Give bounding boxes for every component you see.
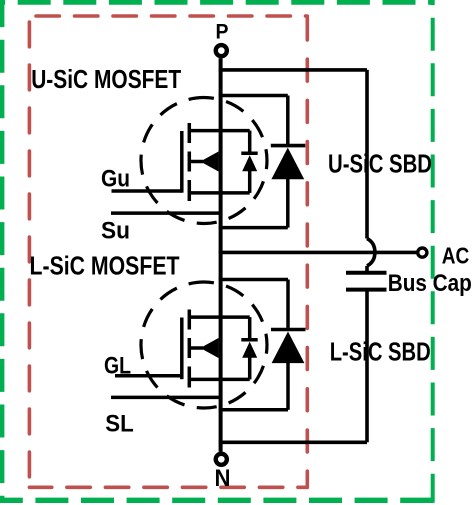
svg-text:U-SiC SBD: U-SiC SBD xyxy=(328,149,432,179)
diode L-SiC SBD anode lead xyxy=(286,362,290,410)
die boundary (red dashed box) xyxy=(29,16,307,487)
wire: gate lead GL xyxy=(115,374,182,378)
diode lower body diode triangle xyxy=(242,342,257,358)
svg-text:Gu: Gu xyxy=(101,166,130,193)
svg-text:U-SiC MOSFET: U-SiC MOSFET xyxy=(31,64,181,94)
wire: top rail P to bus branch xyxy=(219,68,367,72)
diode lower body diode cathode lead xyxy=(248,317,252,338)
transistor L-SiC MOSFET channel segment body xyxy=(188,338,192,358)
svg-text:GL: GL xyxy=(104,352,131,379)
wire: upper SBD branch bottom bar xyxy=(219,226,288,230)
wire: lower SBD branch bottom bar xyxy=(219,408,288,412)
wire: lower source bar to body-diode branch xyxy=(188,378,250,382)
wire: main phase-leg vertical P to N xyxy=(219,58,223,452)
diode L-SiC SBD cathode lead xyxy=(286,280,290,328)
diode U-SiC SBD anode lead xyxy=(286,178,290,228)
transistor U-SiC MOSFET channel segment body xyxy=(188,152,192,172)
diode upper body diode anode lead xyxy=(248,170,252,193)
transistor L-SiC MOSFET channel segment source xyxy=(188,367,192,388)
wire: AC output line xyxy=(219,251,417,255)
wire: upper source bar to body-diode branch xyxy=(188,191,250,195)
svg-text:Su: Su xyxy=(101,217,130,244)
diode lower body diode cathode bar xyxy=(241,338,257,342)
node N terminal circle xyxy=(216,454,227,465)
wire: gate lead Gu xyxy=(112,189,182,193)
diode U-SiC SBD cathode lead xyxy=(286,96,290,145)
diode L-SiC SBD triangle xyxy=(272,332,305,364)
svg-text:L-SiC SBD: L-SiC SBD xyxy=(330,337,431,367)
transistor L-SiC MOSFET gate plate xyxy=(180,318,184,380)
svg-text:Bus Cap: Bus Cap xyxy=(388,270,472,297)
wire: bus branch vertical upper section xyxy=(365,70,369,239)
diode U-SiC SBD cathode bar xyxy=(271,144,306,148)
diode upper body diode cathode lead xyxy=(248,131,252,152)
node P terminal circle xyxy=(216,45,227,56)
transistor L-SiC MOSFET body arrow xyxy=(200,338,218,358)
wire: upper body contact bar xyxy=(188,160,203,164)
diode U-SiC SBD triangle xyxy=(271,148,304,180)
wire: bus branch vertical to capacitor xyxy=(365,266,369,271)
transistor U-SiC MOSFET channel segment drain xyxy=(188,123,192,143)
wire: source lead SL xyxy=(111,396,221,400)
diode upper body diode triangle xyxy=(242,155,257,171)
svg-text:P: P xyxy=(216,21,229,44)
svg-text:L-SiC MOSFET: L-SiC MOSFET xyxy=(30,251,180,281)
diode L-SiC SBD cathode bar xyxy=(271,328,306,332)
wire: bottom rail N to bus branch xyxy=(219,440,367,444)
svg-text:AC: AC xyxy=(442,242,470,268)
wire: upper SBD branch top bar xyxy=(219,94,288,98)
capacitor Bus Cap top plate xyxy=(346,271,387,275)
diode upper body diode cathode bar xyxy=(241,152,257,156)
transistor U-SiC MOSFET channel segment source xyxy=(188,180,192,201)
wire: bus branch vertical lower section xyxy=(365,292,369,443)
wire: upper drain bar to body-diode branch xyxy=(188,129,250,133)
wire hop over AC line xyxy=(367,239,375,266)
transistor L-SiC MOSFET channel segment drain xyxy=(188,310,192,330)
diode lower body diode anode lead xyxy=(248,357,252,380)
lower die dashed circle xyxy=(141,282,267,408)
transistor U-SiC MOSFET gate plate xyxy=(180,131,184,193)
capacitor Bus Cap bottom plate xyxy=(346,288,387,292)
upper die dashed circle xyxy=(141,98,267,224)
transistor U-SiC MOSFET body arrow xyxy=(200,151,218,171)
wire: lower body contact bar xyxy=(188,346,203,350)
svg-text:SL: SL xyxy=(105,411,134,438)
wire: lower drain bar to body-diode branch xyxy=(188,315,250,319)
wire: lower SBD branch top bar xyxy=(219,278,288,282)
svg-text:N: N xyxy=(215,465,231,492)
wire: source lead Su xyxy=(111,211,221,215)
node AC terminal circle xyxy=(418,248,427,257)
